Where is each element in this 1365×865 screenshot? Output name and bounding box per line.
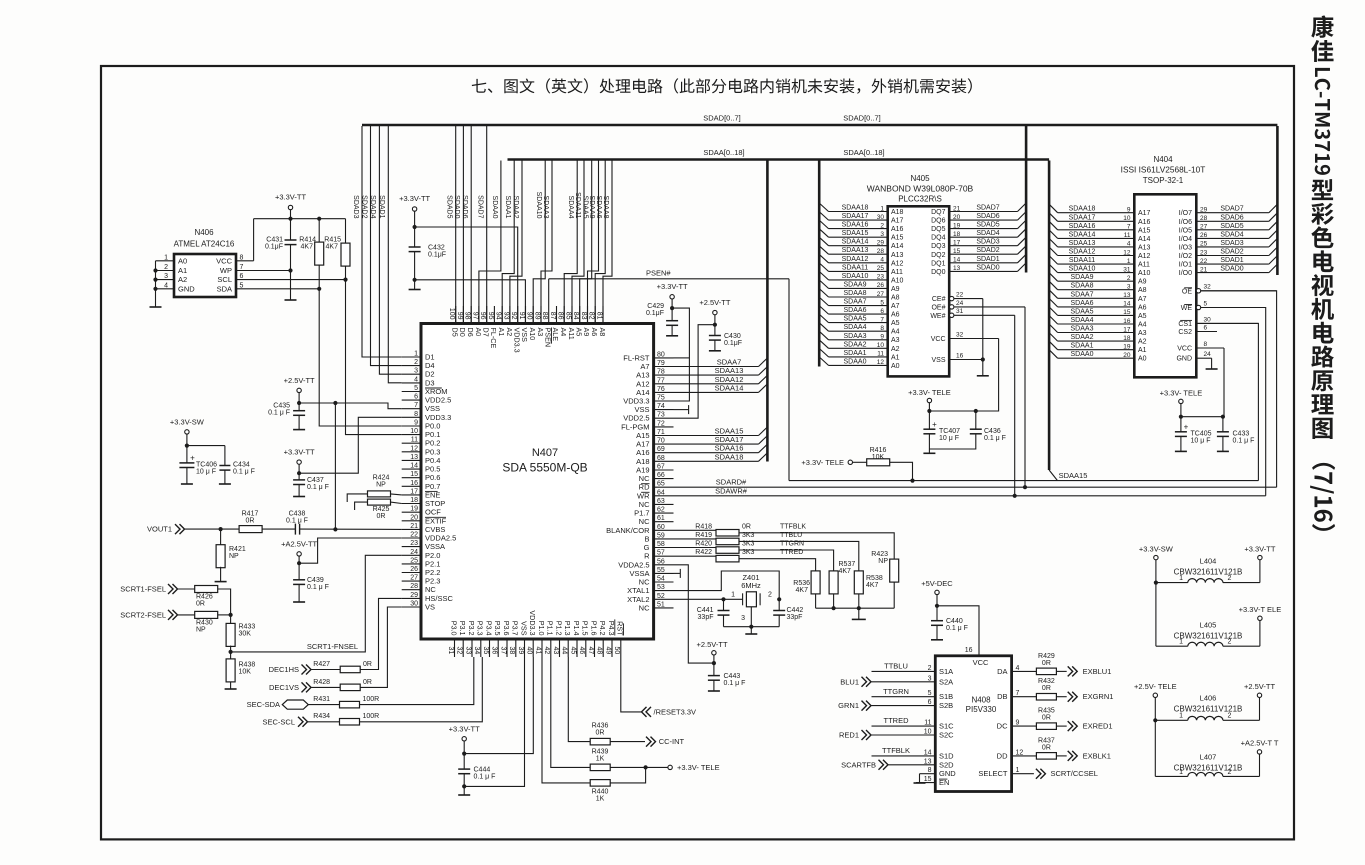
svg-text:G: G (644, 543, 650, 552)
svg-text:SDAD4: SDAD4 (976, 230, 999, 237)
svg-text:A1: A1 (891, 354, 900, 361)
N408 pin 9 (DC) (1012, 725, 1037, 727)
N404 pin 32 (OE) (1196, 289, 1200, 293)
svg-text:I/O3: I/O3 (1179, 244, 1192, 251)
svg-text:75: 75 (657, 395, 665, 402)
svg-text:SDAD6: SDAD6 (976, 213, 999, 220)
N407 pin 4 (D3) (402, 382, 421, 384)
svg-text:16: 16 (1123, 318, 1131, 325)
N404 pin 25 (I/O3) net SDAD3 (1196, 246, 1269, 248)
ground C444 (458, 794, 470, 796)
wire +3.3V-TT rail (290, 210, 292, 219)
resistor R430 NP (195, 611, 218, 618)
net TTGRN to S1B (872, 696, 936, 698)
capacitor C439 0.1uF (293, 579, 305, 581)
resistor R416 10K (853, 461, 867, 463)
svg-text:L405: L405 (1200, 621, 1217, 630)
svg-text:+A2.5V-TT: +A2.5V-TT (281, 540, 317, 549)
svg-text:0R: 0R (377, 513, 386, 520)
svg-text:+3.3V-T ELE: +3.3V-T ELE (1239, 605, 1282, 614)
svg-text:P3.3: P3.3 (476, 621, 485, 636)
svg-text:R431: R431 (313, 696, 330, 703)
svg-text:+3.3V-SW: +3.3V-SW (170, 418, 205, 427)
svg-text:VSSA: VSSA (425, 542, 445, 551)
svg-text:SDAA12: SDAA12 (1069, 249, 1096, 256)
svg-text:12: 12 (877, 359, 885, 366)
svg-text:A4: A4 (891, 329, 900, 336)
svg-text:10 μ F: 10 μ F (1191, 438, 1211, 445)
svg-text:0R: 0R (742, 523, 751, 530)
capacitor C440 0.1uF (931, 620, 943, 622)
svg-text:99: 99 (456, 312, 463, 320)
N407 pin 74 (VSS) (654, 409, 674, 411)
N407 pin 20 (EXTIF) (402, 520, 421, 522)
svg-text:N408: N408 (971, 695, 991, 704)
svg-text:33: 33 (464, 647, 471, 655)
svg-text:A6: A6 (1138, 304, 1147, 311)
svg-text:+3.3V- TELE: +3.3V- TELE (1160, 389, 1203, 398)
svg-text:SDAA9: SDAA9 (1071, 274, 1094, 281)
svg-text:SDAD2: SDAD2 (976, 247, 999, 254)
svg-text:29: 29 (1200, 207, 1208, 214)
svg-text:63: 63 (657, 498, 665, 505)
svg-text:A0: A0 (1138, 356, 1147, 363)
svg-text:1: 1 (731, 591, 735, 598)
ground TC407 (923, 452, 935, 454)
svg-text:0R: 0R (596, 730, 605, 737)
svg-text:FL-CE: FL-CE (489, 328, 498, 349)
svg-text:A6: A6 (891, 312, 900, 319)
svg-text:72: 72 (657, 420, 665, 427)
svg-text:C437: C437 (307, 477, 324, 484)
svg-text:0R: 0R (196, 601, 205, 608)
svg-text:C432: C432 (428, 245, 445, 252)
svg-text:S1D: S1D (939, 751, 954, 760)
svg-text:XTAL1: XTAL1 (627, 586, 649, 595)
wire P1.3 pin 44 to R436 (568, 657, 590, 742)
svg-text:A16: A16 (1138, 219, 1151, 226)
svg-text:TTRED: TTRED (780, 549, 803, 556)
svg-text:SDAA[0..18]: SDAA[0..18] (703, 148, 744, 157)
svg-text:R439: R439 (592, 749, 609, 756)
svg-text:SDAA13: SDAA13 (715, 366, 744, 375)
wire PSEN# from N407 pin 88 (548, 279, 550, 306)
svg-text:10: 10 (1123, 215, 1131, 222)
svg-text:R420: R420 (695, 541, 712, 548)
wire SDAA15 up to N404 CS1 pin 30 (1196, 323, 1258, 480)
svg-text:A7: A7 (891, 303, 900, 310)
svg-text:SCRT1-FNSEL: SCRT1-FNSEL (307, 642, 358, 651)
N407 pin 96 (D7) (486, 306, 488, 324)
svg-text:82: 82 (588, 312, 595, 320)
svg-text:42: 42 (543, 647, 550, 655)
svg-text:P1.2: P1.2 (554, 621, 563, 636)
svg-text:SDAA16: SDAA16 (842, 222, 869, 229)
N408 EN pin 15 stub (916, 782, 935, 784)
svg-text:P3.0: P3.0 (449, 621, 458, 636)
N404 pin 22 (I/O1) net SDAD1 (1196, 263, 1269, 265)
N405 pin 18 (DQ4) net SDAD4 (949, 236, 1017, 238)
svg-text:73: 73 (657, 412, 665, 419)
N407 pin 90 (A10) (532, 306, 534, 324)
N405 pin 15 (DQ2) net SDAD2 (949, 253, 1017, 255)
svg-text:3K3: 3K3 (742, 541, 755, 548)
wire +3.3V-TELE node N404 (1180, 404, 1182, 432)
N407 pin 93 (A2) (509, 306, 511, 324)
svg-text:SDAA8: SDAA8 (1071, 283, 1094, 290)
wire R439 to +3.3V-TELE (611, 766, 668, 768)
svg-text:A13: A13 (1138, 244, 1151, 251)
N407 pin 64 (WR) (654, 495, 674, 497)
wire SDAD bus to N407 pin 1 (362, 126, 402, 357)
svg-text:SDAA0: SDAA0 (491, 196, 498, 219)
ground pulldown rail (858, 608, 860, 619)
svg-text:0.1 μ F: 0.1 μ F (1233, 438, 1255, 445)
N405 pin 32 (VCC) (949, 338, 998, 340)
svg-text:4K7: 4K7 (866, 582, 879, 589)
svg-text:R415: R415 (324, 237, 341, 244)
svg-text:A0: A0 (891, 363, 900, 370)
svg-text:61: 61 (657, 515, 665, 522)
N404 pin 10 (A16) net SDAA17 (1058, 220, 1135, 222)
N407 pin 49 (P4.3) (611, 639, 613, 657)
svg-text:SDAA3: SDAA3 (844, 333, 867, 340)
svg-text:33pF: 33pF (698, 614, 714, 621)
svg-text:2: 2 (1127, 275, 1131, 282)
svg-text:DC: DC (997, 722, 1008, 731)
power +2.5V-TT L406 (1257, 693, 1261, 697)
N405 pin 13 (DQ0) net SDAD0 (949, 270, 1017, 272)
svg-text:DQ2: DQ2 (931, 252, 946, 259)
svg-text:SDAA[0..18]: SDAA[0..18] (843, 148, 884, 157)
svg-text:VDD3.3: VDD3.3 (513, 328, 522, 353)
N405 pin 9 (A3) net SDAA3 (829, 339, 888, 341)
ground Z401 (750, 627, 752, 634)
svg-text:14: 14 (410, 463, 418, 470)
svg-text:0.1 μ F: 0.1 μ F (233, 469, 255, 476)
svg-text:A7: A7 (1138, 296, 1147, 303)
svg-text:A1: A1 (178, 266, 187, 275)
svg-text:22: 22 (1200, 258, 1208, 265)
svg-text:53: 53 (657, 584, 665, 591)
svg-text:SDAD5: SDAD5 (446, 195, 453, 218)
bus SDAD vertical to N404 IO fan (1276, 126, 1279, 275)
N407 pin 54 (NC) (654, 581, 674, 583)
power +5V-DEC (935, 590, 939, 594)
svg-text:29: 29 (877, 240, 885, 247)
svg-text:I/O7: I/O7 (1179, 210, 1192, 217)
svg-text:N407: N407 (532, 447, 558, 459)
svg-text:SDAA4: SDAA4 (567, 196, 574, 219)
N407 VSS pin 74 stub (674, 409, 689, 411)
svg-text:+2.5V-TT: +2.5V-TT (284, 376, 315, 385)
svg-text:4: 4 (1127, 241, 1131, 248)
svg-text:25: 25 (1200, 241, 1208, 248)
svg-text:2: 2 (164, 264, 168, 271)
svg-text:10 μ F: 10 μ F (196, 469, 216, 476)
svg-text:0R: 0R (1042, 715, 1051, 722)
svg-text:+3.3V-SW: +3.3V-SW (1139, 545, 1174, 554)
N407 pin 59 (B) (654, 538, 674, 540)
N407 pin 19 (OCF) (402, 511, 421, 513)
svg-text:0.1 μ F: 0.1 μ F (307, 484, 329, 491)
N407 pin 42 (P1.1) (550, 639, 552, 657)
N407 pin 94 (A1) (501, 306, 503, 324)
N407 pin 72 (FL-PGM) (654, 426, 674, 428)
N407 pin 98 (D6) (470, 306, 472, 324)
N406 pin 2 (A1) (156, 270, 175, 272)
svg-text:SDAA2: SDAA2 (512, 196, 519, 219)
svg-text:+3.3V-TT: +3.3V-TT (449, 725, 480, 734)
svg-text:SDAA9: SDAA9 (844, 281, 867, 288)
svg-text:6MHz: 6MHz (741, 581, 761, 590)
svg-text:80: 80 (657, 351, 665, 358)
svg-text:4: 4 (164, 282, 168, 289)
svg-text:67: 67 (657, 464, 665, 471)
svg-text:GRN1: GRN1 (838, 701, 859, 710)
svg-text:0.1 μ F: 0.1 μ F (946, 625, 968, 632)
N407 pin 58 (G) (654, 547, 674, 549)
svg-text:/RESET3.3V: /RESET3.3V (654, 707, 697, 716)
N406 pin 8 (VCC) (236, 260, 254, 262)
svg-text:2: 2 (1228, 713, 1232, 720)
wire SDAA10 to N407 pin 90 (533, 161, 545, 324)
svg-text:SDAD[0..7]: SDAD[0..7] (843, 114, 881, 123)
capacitor C429 0.1uF (666, 320, 678, 322)
wire +2.5V-TT to VDD2.5 pin 73 (714, 315, 716, 336)
svg-text:66: 66 (657, 472, 665, 479)
N407 pin 51 (NC) (654, 607, 674, 609)
N404 pin 4 (A13) net SDAA13 (1058, 246, 1135, 248)
svg-text:C430: C430 (724, 333, 741, 340)
svg-text:GND: GND (939, 769, 956, 778)
wire N405 CE# to ground (982, 299, 984, 360)
svg-text:SDAA17: SDAA17 (842, 213, 869, 220)
svg-text:1: 1 (164, 254, 168, 261)
svg-text:30: 30 (877, 214, 885, 221)
N405 pin 1 (A18) net SDAA18 (829, 211, 888, 213)
svg-text:SDAA5: SDAA5 (582, 196, 589, 219)
wire N407 pin 76 to SDAA bus (SDAA14) (674, 391, 759, 393)
svg-text:21: 21 (1200, 266, 1208, 273)
N407 pin 44 (P1.3) (567, 639, 569, 657)
svg-text:31: 31 (956, 308, 964, 315)
svg-text:10K: 10K (239, 669, 252, 676)
ground TC406 (181, 483, 193, 485)
N404 pin 12 (A12) net SDAA12 (1058, 255, 1135, 257)
svg-text:2: 2 (1228, 769, 1232, 776)
svg-text:I/O1: I/O1 (1179, 262, 1192, 269)
svg-text:6: 6 (1204, 324, 1208, 331)
resistor R431 100R (340, 701, 360, 708)
svg-text:SDAA0: SDAA0 (1071, 351, 1094, 358)
wire R426 to R433 node (218, 589, 231, 615)
N407 pin 26 (P2.2) (402, 572, 421, 574)
N407 pin 86 (A4) (563, 306, 565, 324)
svg-text:11: 11 (877, 351, 884, 358)
power +3.3V-TT L404 (1258, 555, 1262, 559)
svg-text:77: 77 (657, 377, 665, 384)
svg-text:+3.3V-TT: +3.3V-TT (1244, 545, 1275, 554)
resistor R434 100R (340, 719, 360, 726)
IC N408 PI5V330 (935, 656, 1011, 792)
svg-text:26: 26 (1200, 232, 1208, 239)
svg-text:SDAA2: SDAA2 (1071, 334, 1094, 341)
svg-text:20: 20 (410, 514, 418, 521)
wire N407 pin 78 to SDAA bus (SDAA13) (674, 374, 759, 376)
svg-text:SDAA10: SDAA10 (842, 273, 869, 280)
N407 pin 37 (P3.6) (506, 639, 508, 657)
svg-text:R421: R421 (229, 546, 246, 553)
N405 pin 11 (A1) net SDAA1 (829, 356, 888, 358)
capacitor C432 0.1uF (409, 246, 421, 248)
N407 pin 1 (D1) (402, 356, 421, 358)
svg-text:VCC: VCC (973, 658, 989, 667)
N405 pin 17 (DQ3) net SDAD3 (949, 245, 1017, 247)
svg-text:WANBOND W39L080P-70B: WANBOND W39L080P-70B (867, 184, 974, 194)
wire pulldown ground rail (816, 607, 895, 609)
svg-text:SEC-SDA: SEC-SDA (247, 700, 280, 709)
N405 pin 20 (DQ6) net SDAD6 (949, 219, 1017, 221)
svg-text:R440: R440 (592, 789, 609, 796)
svg-text:A3: A3 (891, 337, 900, 344)
svg-text:NP: NP (229, 553, 239, 560)
svg-text:A18: A18 (636, 457, 649, 466)
capacitor C436 0.1uF (975, 411, 977, 429)
wire SCRT2-FSEL to R430 (178, 614, 195, 616)
ground C429 (666, 335, 678, 337)
svg-text:I/O0: I/O0 (1179, 270, 1192, 277)
svg-text:32: 32 (1204, 284, 1212, 291)
power +2.5V-TT C443 (712, 651, 716, 655)
wire N405 WE# to SDAWR# (1014, 315, 1016, 496)
N407 VSSA pin 55 stub (674, 572, 681, 574)
svg-text:P3.2: P3.2 (467, 621, 476, 636)
N407 pin 68 (A18) (654, 460, 674, 462)
svg-text:34: 34 (473, 647, 480, 655)
resistor R436 0R (590, 738, 610, 745)
wire P1.1 pin 42 to R439 (551, 657, 590, 767)
wire C444 to VSS pin 39 (462, 784, 466, 788)
svg-text:P1.4: P1.4 (572, 621, 581, 636)
N405 pin 2 (A16) net SDAA16 (829, 228, 888, 230)
N404 pin 1 (A11) net SDAA11 (1058, 263, 1135, 265)
svg-text:L407: L407 (1200, 753, 1217, 762)
bus SDAA vertical to N405 (818, 161, 821, 367)
svg-text:SDAD0: SDAD0 (453, 195, 460, 218)
N407 pin 66 (NC) (654, 478, 674, 480)
svg-text:56: 56 (657, 558, 665, 565)
wire SDAA5 to N407 pin 84 (580, 161, 592, 324)
svg-text:13: 13 (1123, 292, 1131, 299)
N407 pin 10 (P0.1) (402, 434, 421, 436)
wire SDAA3 to N407 pin 89 (541, 161, 552, 324)
N405 pin 7 (A5) net SDAA5 (829, 322, 888, 324)
svg-text:SDAD1: SDAD1 (976, 256, 999, 263)
svg-text:19: 19 (953, 222, 961, 229)
svg-text:38: 38 (508, 647, 515, 655)
resistor R426 0R (195, 586, 218, 593)
svg-text:R417: R417 (242, 511, 259, 518)
IC N407 SDA 5550M-QB (421, 324, 654, 640)
svg-text:64: 64 (657, 489, 665, 496)
svg-text:S2D: S2D (939, 760, 954, 769)
svg-text:C436: C436 (984, 428, 1001, 435)
N407 pin 33 (P3.2) (471, 639, 473, 657)
svg-text:+3.3V- TELE: +3.3V- TELE (677, 763, 720, 772)
svg-text:54: 54 (657, 576, 665, 583)
wire XTAL2 to crystal (674, 598, 743, 600)
wire N407 pin 57 to R422 (674, 555, 717, 557)
svg-text:SELECT: SELECT (978, 769, 1008, 778)
svg-text:32: 32 (956, 331, 964, 338)
svg-text:A0: A0 (178, 256, 187, 265)
N406 pin 7 (WP) (236, 270, 291, 272)
svg-text:A10: A10 (1138, 270, 1151, 277)
N407 pin 40 (VDD3.3) (532, 639, 534, 657)
power +3.3V-TT N406 (288, 205, 292, 209)
svg-text:0.1μF: 0.1μF (428, 252, 446, 259)
svg-text:100: 100 (448, 308, 455, 320)
N405 pin 25 (A11) net SDAA11 (829, 270, 888, 272)
svg-text:N404: N404 (1153, 155, 1173, 164)
svg-text:SDAD3: SDAD3 (1220, 240, 1243, 247)
node R415-SCL (343, 278, 347, 282)
svg-text:D5: D5 (451, 328, 460, 337)
svg-text:R423: R423 (871, 551, 888, 558)
wire R417 to C438 (262, 528, 295, 530)
svg-text:85: 85 (564, 312, 571, 320)
N404 pin 11 (A14) net SDAA14 (1058, 237, 1135, 239)
svg-text:SDAA9: SDAA9 (588, 196, 595, 219)
N404 pin 30 (CS1) (1196, 322, 1258, 324)
svg-text:SDAA1: SDAA1 (844, 350, 867, 357)
node R414-SDA (317, 287, 321, 291)
svg-text:SDAA3: SDAA3 (542, 196, 549, 219)
N405 pin 31 (WE#) (950, 313, 954, 317)
svg-text:0.1 μ F: 0.1 μ F (984, 435, 1006, 442)
svg-text:79: 79 (657, 360, 665, 367)
N407 pin 95 (FL-CE) (493, 306, 495, 324)
svg-text:SDAA15: SDAA15 (1059, 471, 1088, 480)
N405 pin 27 (A8) net SDAA8 (829, 296, 888, 298)
N404 pin 7 (A15) net SDAA16 (1058, 229, 1135, 231)
svg-text:SDAD3: SDAD3 (352, 195, 359, 218)
wire R422 to R536 pulldown (TTRED) (739, 559, 816, 571)
wire crystal ground rail (724, 626, 780, 628)
svg-text:2: 2 (880, 222, 884, 229)
svg-text:A8: A8 (598, 328, 607, 337)
svg-text:58: 58 (657, 541, 665, 548)
svg-text:A2: A2 (891, 346, 900, 353)
wire SDAA1 to N407 pin 94 (502, 161, 514, 324)
svg-text:27: 27 (1200, 224, 1208, 231)
svg-text:+2.5V-TT: +2.5V-TT (696, 640, 727, 649)
wire +3.3V-TT to VDD3.3 pin 8 (298, 464, 300, 480)
N404 pin 23 (I/O2) net SDAD2 (1196, 255, 1269, 257)
svg-text:9: 9 (880, 334, 884, 341)
svg-text:A17: A17 (891, 218, 904, 225)
svg-text:C442: C442 (787, 607, 804, 614)
capacitor C433 0.1uF (1222, 417, 1224, 432)
N404 pin 13 (A7) net SDAA7 (1058, 297, 1135, 299)
svg-text:OE#: OE# (931, 304, 945, 311)
resistor R418 0R (716, 530, 739, 537)
svg-text:SDAA12: SDAA12 (842, 256, 869, 263)
svg-text:C441: C441 (697, 607, 714, 614)
N406 pin 5 (SDA) (236, 288, 319, 290)
svg-text:100R: 100R (363, 696, 380, 703)
